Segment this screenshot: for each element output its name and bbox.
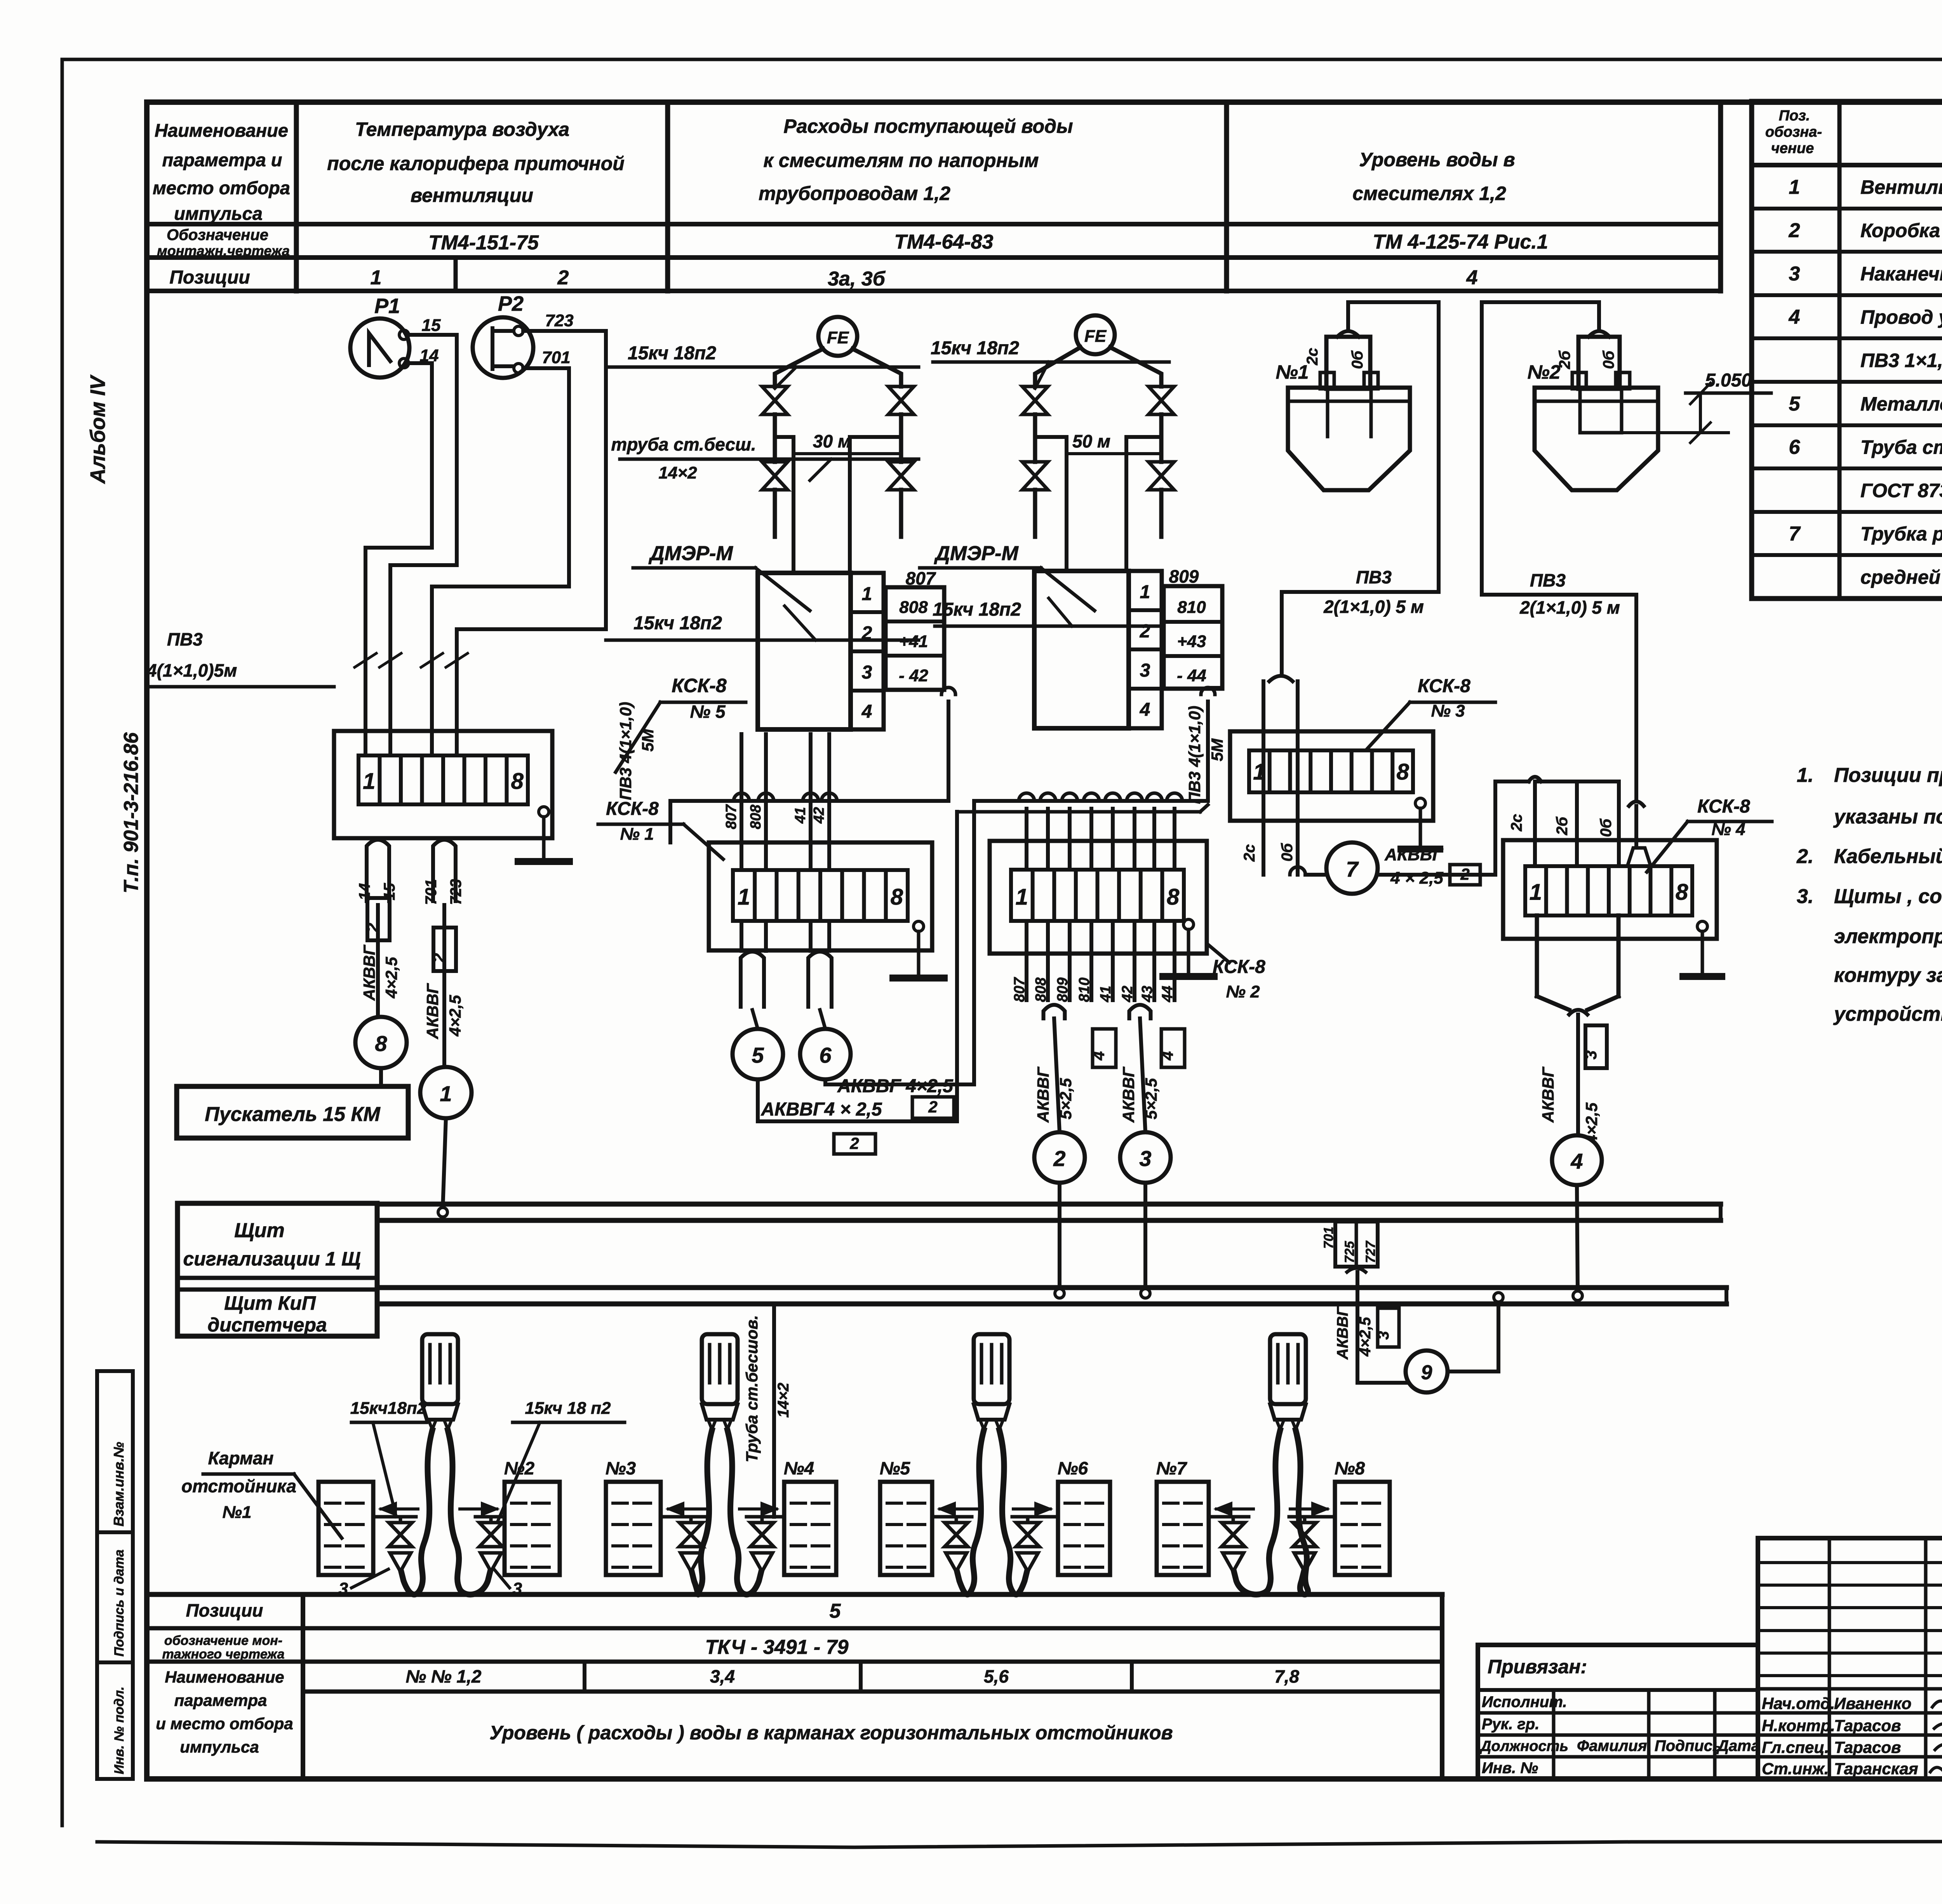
svg-text:2б: 2б — [1556, 350, 1573, 369]
svg-text:№7: №7 — [1156, 1458, 1188, 1478]
svg-text:2: 2 — [430, 953, 449, 963]
svg-text:2: 2 — [861, 623, 872, 644]
svg-text:809: 809 — [1169, 566, 1199, 587]
svg-text:Обозначение: Обозначение — [167, 226, 268, 244]
svg-text:после калорифера приточной: после калорифера приточной — [327, 153, 625, 174]
svg-text:0б: 0б — [1600, 350, 1617, 369]
svg-text:14×2: 14×2 — [775, 1383, 792, 1418]
svg-text:42: 42 — [1119, 986, 1136, 1002]
svg-text:810: 810 — [1177, 598, 1206, 617]
svg-text:АКВВГ: АКВВГ — [1034, 1066, 1052, 1123]
svg-text:и место отбора: и место отбора — [156, 1714, 293, 1733]
svg-text:Позиции: Позиции — [186, 1600, 263, 1620]
svg-text:723: 723 — [447, 879, 465, 905]
svg-text:14×2: 14×2 — [658, 463, 697, 482]
svg-text:Н.контр.: Н.контр. — [1762, 1716, 1835, 1735]
svg-text:8: 8 — [1396, 759, 1409, 785]
svg-text:725: 725 — [1342, 1241, 1357, 1263]
svg-text:2б: 2б — [1554, 816, 1571, 835]
svg-text:1: 1 — [1530, 880, 1542, 905]
svg-text:Нач.отд.: Нач.отд. — [1762, 1694, 1835, 1713]
svg-text:№8: №8 — [1335, 1458, 1365, 1478]
svg-text:ТКЧ - 3491 - 79: ТКЧ - 3491 - 79 — [705, 1636, 848, 1659]
svg-text:Привязан:: Привязан: — [1488, 1656, 1587, 1678]
svg-text:15кч 18п2: 15кч 18п2 — [633, 613, 722, 634]
svg-text:Кабельный журнал см.: Кабельный журнал см. АТХ лист 6. — [1834, 845, 1942, 868]
svg-text:КСК-8: КСК-8 — [606, 799, 659, 819]
svg-text:указаны по спецификации: указаны по спецификации АТХ С01. — [1833, 806, 1942, 828]
svg-text:ТМ4-64-83: ТМ4-64-83 — [894, 231, 994, 253]
svg-text:4: 4 — [1570, 1149, 1583, 1173]
svg-text:1: 1 — [440, 1081, 452, 1106]
svg-text:Температура воздуха: Температура воздуха — [355, 118, 569, 140]
svg-text:Должность: Должность — [1479, 1738, 1568, 1754]
svg-text:701: 701 — [542, 348, 570, 367]
svg-text:1: 1 — [363, 769, 375, 794]
svg-text:15кч 18п2: 15кч 18п2 — [931, 338, 1019, 359]
svg-text:FE: FE — [1084, 327, 1107, 346]
svg-text:4: 4 — [1089, 1051, 1108, 1060]
svg-text:Труба ст.бесшов.: Труба ст.бесшов. — [743, 1315, 761, 1462]
svg-text:4×2,5: 4×2,5 — [446, 995, 464, 1037]
svg-text:+43: +43 — [1177, 632, 1206, 651]
svg-text:5,6: 5,6 — [984, 1666, 1009, 1686]
svg-text:КСК-8: КСК-8 — [672, 675, 727, 696]
svg-text:- 44: - 44 — [1177, 666, 1206, 685]
svg-text:Альбом IV: Альбом IV — [86, 374, 110, 484]
svg-text:8: 8 — [1676, 880, 1688, 905]
svg-text:ДМЭР-М: ДМЭР-М — [934, 542, 1019, 565]
svg-text:9: 9 — [1421, 1361, 1432, 1384]
svg-text:Пускатель 15 КМ: Пускатель 15 КМ — [205, 1103, 381, 1126]
svg-text:3а, 3б: 3а, 3б — [828, 268, 886, 290]
svg-text:809: 809 — [1055, 978, 1071, 1002]
svg-text:0б: 0б — [1349, 350, 1366, 369]
svg-text:Наименование: Наименование — [155, 120, 288, 141]
svg-text:2: 2 — [557, 266, 569, 289]
svg-text:4 × 2,5: 4 × 2,5 — [1390, 868, 1443, 888]
svg-text:1: 1 — [1253, 759, 1265, 785]
svg-text:5: 5 — [830, 1600, 841, 1622]
svg-text:4: 4 — [1158, 1051, 1176, 1060]
svg-text:Карман: Карман — [208, 1448, 274, 1468]
svg-text:1.: 1. — [1797, 764, 1813, 787]
svg-text:АКВВГ: АКВВГ — [1119, 1066, 1138, 1123]
svg-text:обозна-: обозна- — [1765, 124, 1822, 140]
svg-text:2: 2 — [1460, 865, 1469, 883]
svg-text:ПВ3: ПВ3 — [167, 629, 203, 649]
svg-text:30 м: 30 м — [813, 431, 851, 451]
svg-text:3: 3 — [862, 662, 872, 683]
svg-text:Рук. гр.: Рук. гр. — [1482, 1716, 1539, 1733]
svg-text:трубопроводам 1,2: трубопроводам 1,2 — [759, 183, 950, 204]
svg-text:5: 5 — [1789, 393, 1801, 415]
svg-text:Щит КиП: Щит КиП — [224, 1292, 316, 1314]
svg-text:Взам.инв.№: Взам.инв.№ — [111, 1442, 127, 1526]
svg-text:КСК-8: КСК-8 — [1213, 957, 1265, 977]
svg-text:0б: 0б — [1279, 843, 1296, 861]
svg-text:43: 43 — [1139, 986, 1155, 1002]
svg-text:701: 701 — [423, 879, 440, 905]
svg-text:1: 1 — [738, 884, 750, 910]
svg-text:727: 727 — [1363, 1240, 1378, 1263]
svg-text:АКВВГ: АКВВГ — [1334, 1306, 1351, 1360]
svg-text:4: 4 — [1466, 266, 1478, 289]
svg-text:3: 3 — [1789, 263, 1800, 285]
svg-text:к смесителям по напорным: к смесителям по напорным — [764, 150, 1039, 171]
svg-text:Коробка соединительная.: Коробка соединительная. КСК-8 — [1860, 220, 1942, 242]
svg-text:FE: FE — [827, 328, 849, 347]
svg-text:2: 2 — [849, 1134, 859, 1152]
svg-text:6: 6 — [819, 1043, 832, 1067]
svg-text:Позиции приборов и: Позиции приборов и средств автоматизации — [1834, 764, 1942, 787]
svg-text:Поз.: Поз. — [1779, 108, 1810, 124]
svg-text:4: 4 — [1789, 306, 1800, 329]
svg-text:2: 2 — [363, 922, 382, 933]
svg-text:параметра и: параметра и — [162, 150, 282, 170]
svg-text:1: 1 — [1789, 176, 1800, 198]
svg-text:+41: +41 — [899, 632, 928, 651]
svg-text:труба ст.бесш.: труба ст.бесш. — [611, 434, 756, 454]
svg-text:2(1×1,0) 5 м: 2(1×1,0) 5 м — [1323, 597, 1424, 617]
svg-text:ПВ3 1×1,0 кв.мм: ПВ3 1×1,0 кв.мм — [1860, 350, 1942, 371]
svg-text:5×2,5: 5×2,5 — [1142, 1078, 1160, 1119]
svg-text:2: 2 — [928, 1098, 937, 1116]
svg-text:чение: чение — [1771, 140, 1814, 157]
svg-text:ГОСТ 8734-75: ГОСТ 8734-75 — [1860, 480, 1942, 501]
svg-text:2.: 2. — [1796, 845, 1813, 868]
svg-text:807: 807 — [723, 804, 740, 829]
svg-text:5М: 5М — [1208, 738, 1226, 761]
svg-text:6: 6 — [1789, 436, 1801, 459]
svg-text:3: 3 — [1582, 1050, 1600, 1059]
svg-text:Гл.спец.: Гл.спец. — [1762, 1738, 1829, 1756]
svg-text:808: 808 — [1033, 977, 1049, 1002]
svg-text:5: 5 — [752, 1043, 764, 1067]
svg-text:устройства электроустановок: устройства электроустановок (пуэ).” — [1833, 1003, 1942, 1025]
svg-text:3: 3 — [1139, 1146, 1151, 1171]
svg-text:Инв. №: Инв. № — [1482, 1760, 1538, 1777]
svg-text:место отбора: место отбора — [153, 178, 290, 198]
svg-text:№ 1: № 1 — [620, 825, 654, 844]
svg-text:сигнализации 1 Щ: сигнализации 1 Щ — [183, 1248, 360, 1270]
svg-text:15: 15 — [422, 316, 441, 335]
svg-text:15кч 18п2: 15кч 18п2 — [933, 599, 1021, 620]
svg-text:2(1×1,0) 5 м: 2(1×1,0) 5 м — [1519, 597, 1620, 618]
svg-text:№ 3: № 3 — [1431, 701, 1465, 721]
svg-text:Инв. № подл.: Инв. № подл. — [112, 1686, 127, 1774]
svg-text:№2: №2 — [1527, 361, 1560, 383]
svg-text:Наименование: Наименование — [165, 1668, 284, 1686]
svg-text:Металлорукав Р3-Ц-Х-Ш18 У3: Металлорукав Р3-Ц-Х-Ш18 У3 — [1860, 393, 1942, 415]
svg-text:импульса: импульса — [180, 1738, 259, 1756]
svg-text:отстойника: отстойника — [181, 1476, 296, 1496]
svg-text:8: 8 — [1167, 884, 1180, 910]
svg-text:807: 807 — [1011, 977, 1028, 1002]
svg-text:810: 810 — [1076, 978, 1093, 1002]
svg-text:АКВВГ: АКВВГ — [423, 983, 442, 1039]
svg-text:АКВВГ: АКВВГ — [360, 944, 378, 1001]
svg-text:5М: 5М — [639, 729, 657, 752]
svg-text:Таранская: Таранская — [1834, 1760, 1918, 1778]
svg-text:2: 2 — [1053, 1146, 1065, 1171]
svg-text:8: 8 — [375, 1031, 387, 1056]
svg-text:41: 41 — [1098, 986, 1114, 1002]
svg-text:контуру заземления в: контуру заземления в соответствии с „ пр… — [1834, 964, 1942, 987]
svg-text:3,4: 3,4 — [710, 1666, 735, 1686]
svg-text:средней твердости 8×2: средней твердости 8×2 — [1860, 566, 1942, 588]
svg-text:КСК-8: КСК-8 — [1418, 676, 1470, 696]
svg-text:7: 7 — [1346, 857, 1359, 881]
svg-text:ПВ3: ПВ3 — [1356, 567, 1392, 587]
svg-text:4: 4 — [1140, 700, 1150, 720]
svg-text:7: 7 — [1789, 523, 1801, 545]
svg-text:3: 3 — [1375, 1331, 1392, 1340]
svg-text:№ № 1,2: № № 1,2 — [406, 1666, 482, 1686]
svg-text:Наканечник переходной Н: Наканечник переходной НП-1/2" — [1860, 263, 1942, 285]
svg-text:7,8: 7,8 — [1274, 1666, 1299, 1686]
svg-text:Тарасов: Тарасов — [1834, 1738, 1901, 1756]
svg-text:АКВВГ: АКВВГ — [1384, 845, 1443, 864]
svg-text:№ 5: № 5 — [690, 701, 726, 722]
svg-text:8: 8 — [511, 769, 524, 794]
svg-text:Труба стальная бесшовная: Труба стальная бесшовная 14×2 — [1860, 437, 1942, 458]
svg-text:Т.п. 901-3-216.86: Т.п. 901-3-216.86 — [120, 732, 143, 893]
svg-text:701: 701 — [1321, 1227, 1336, 1249]
svg-text:41: 41 — [792, 807, 809, 824]
svg-text:2: 2 — [1140, 621, 1150, 642]
svg-text:- 42: - 42 — [899, 666, 928, 685]
svg-text:ТМ 4-125-74 Рис.1: ТМ 4-125-74 Рис.1 — [1373, 231, 1548, 253]
svg-text:№3: №3 — [606, 1458, 636, 1478]
svg-text:Подпись и дата: Подпись и дата — [112, 1549, 127, 1657]
svg-text:тажного чертежа: тажного чертежа — [162, 1647, 284, 1662]
svg-text:Провод установочный ~380В: Провод установочный ~380В ГОСТ 6323-79 — [1860, 306, 1942, 328]
svg-text:Расходы поступающей во: Расходы поступающей воды — [783, 115, 1073, 137]
svg-text:4: 4 — [861, 701, 872, 722]
svg-text:15кч 18 п2: 15кч 18 п2 — [525, 1399, 611, 1418]
svg-text:смесителях 1,2: смесителях 1,2 — [1352, 183, 1506, 204]
svg-text:№5: №5 — [880, 1458, 911, 1478]
svg-text:№1: №1 — [223, 1503, 252, 1522]
svg-text:44: 44 — [1159, 986, 1176, 1002]
svg-text:Дата: Дата — [1716, 1737, 1760, 1754]
svg-text:8: 8 — [891, 884, 903, 910]
svg-text:№6: №6 — [1058, 1458, 1088, 1478]
svg-text:50 м: 50 м — [1072, 431, 1110, 451]
svg-text:монтажн.чертежа: монтажн.чертежа — [157, 243, 290, 259]
svg-text:2с: 2с — [1508, 814, 1525, 832]
svg-text:Ст.инж.: Ст.инж. — [1762, 1760, 1829, 1778]
svg-text:1: 1 — [1140, 582, 1150, 602]
svg-text:параметра: параметра — [174, 1691, 267, 1709]
svg-text:1: 1 — [862, 584, 872, 604]
svg-text:3.: 3. — [1797, 885, 1813, 908]
svg-text:5.050: 5.050 — [1705, 370, 1752, 391]
svg-text:№ 2: № 2 — [1226, 982, 1260, 1001]
svg-text:КСК-8: КСК-8 — [1697, 796, 1750, 817]
svg-text:диспетчера: диспетчера — [207, 1314, 327, 1336]
svg-text:808: 808 — [748, 804, 764, 829]
svg-text:АКВВГ 4×2,5: АКВВГ 4×2,5 — [837, 1076, 954, 1096]
svg-text:Щиты , соединительные короб: Щиты , соединительные коробки , защитные… — [1834, 885, 1942, 908]
svg-text:Фамилия: Фамилия — [1577, 1737, 1647, 1754]
svg-text:2с: 2с — [1304, 348, 1321, 366]
svg-text:0б: 0б — [1597, 818, 1615, 837]
svg-text:ПВ3 4(1×1,0): ПВ3 4(1×1,0) — [616, 702, 635, 800]
svg-text:Р2: Р2 — [498, 292, 524, 315]
svg-text:Иваненко: Иваненко — [1834, 1694, 1911, 1713]
svg-text:15кч18п2: 15кч18п2 — [350, 1399, 427, 1418]
svg-text:АКВВГ: АКВВГ — [1539, 1066, 1557, 1123]
svg-text:ДМЭР-М: ДМЭР-М — [648, 542, 733, 565]
svg-text:ТМ4-151-75: ТМ4-151-75 — [428, 231, 539, 254]
svg-text:808: 808 — [899, 598, 928, 617]
svg-text:Уровень ( расходы ) вод: Уровень ( расходы ) воды в карманах гори… — [489, 1722, 1173, 1744]
svg-text:Исполнит.: Исполнит. — [1482, 1693, 1567, 1711]
svg-text:№4: №4 — [784, 1458, 814, 1478]
svg-text:Трубка резиновая техническ: Трубка резиновая техническая типа III — [1860, 523, 1942, 545]
svg-text:Тарасов: Тарасов — [1834, 1716, 1901, 1735]
svg-text:ПВ3 4(1×1,0): ПВ3 4(1×1,0) — [1185, 706, 1204, 804]
svg-text:4×2,5: 4×2,5 — [382, 957, 400, 999]
svg-text:Р1: Р1 — [374, 294, 400, 318]
svg-text:723: 723 — [545, 311, 573, 330]
svg-text:ПВ3: ПВ3 — [1530, 570, 1566, 590]
svg-text:15кч 18п2: 15кч 18п2 — [628, 343, 716, 364]
svg-text:вентиляции: вентиляции — [411, 184, 533, 206]
svg-text:2: 2 — [1789, 219, 1800, 242]
svg-text:3: 3 — [1140, 660, 1150, 681]
svg-text:АКВВГ4 × 2,5: АКВВГ4 × 2,5 — [760, 1099, 882, 1120]
svg-text:Подпись: Подпись — [1655, 1737, 1722, 1754]
svg-text:Щит: Щит — [234, 1219, 284, 1242]
svg-text:4(1×1,0)5м: 4(1×1,0)5м — [146, 660, 237, 680]
svg-text:1: 1 — [371, 266, 382, 289]
svg-text:42: 42 — [811, 807, 827, 824]
svg-text:4×2,5: 4×2,5 — [1357, 1317, 1374, 1357]
svg-text:электропроводок заземлить: электропроводок заземлить подсоединением… — [1834, 925, 1942, 948]
svg-text:1: 1 — [1016, 884, 1028, 910]
svg-text:импульса: импульса — [174, 203, 263, 224]
svg-text:Позиции: Позиции — [169, 267, 250, 288]
svg-text:Уровень воды в: Уровень воды в — [1359, 149, 1515, 171]
svg-text:2с: 2с — [1241, 844, 1258, 862]
svg-text:обозначение мон-: обозначение мон- — [164, 1633, 282, 1648]
svg-text:5×2,5: 5×2,5 — [1056, 1078, 1075, 1119]
svg-text:Вентиль запорный Ду=15: Вентиль запорный Ду=15 15кч18п2 — [1860, 176, 1942, 198]
